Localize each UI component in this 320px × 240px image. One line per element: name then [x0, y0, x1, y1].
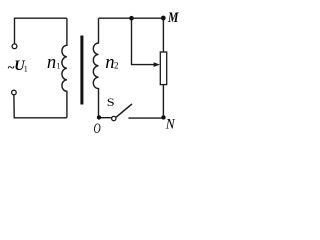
svg-text:1: 1	[24, 65, 28, 74]
svg-text:1: 1	[57, 62, 61, 71]
svg-text:O: O	[94, 120, 101, 136]
svg-text:2: 2	[114, 60, 119, 70]
svg-text:M: M	[167, 9, 179, 26]
svg-text:n: n	[47, 52, 56, 73]
svg-text:N: N	[165, 116, 176, 133]
svg-text:S: S	[107, 95, 115, 109]
